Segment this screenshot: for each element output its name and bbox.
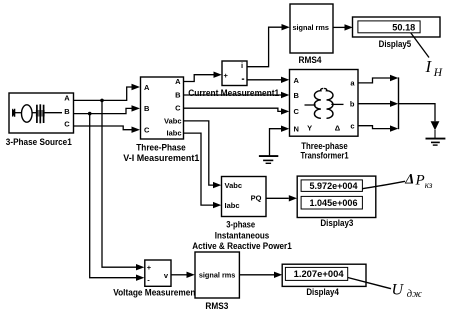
wire V-I Iabc out to Power Iabc [184,133,222,208]
junction dot on A wire [100,99,104,103]
annotation label I_H [425,57,443,79]
label 3-Phase Source1 [6,137,72,147]
annotation label U-dzh [392,281,423,299]
wire source C to V-I C [74,126,141,133]
svg-text:1.207e+004: 1.207e+004 [294,269,344,279]
label 3-phase Instantaneous Active & Reactive Power1 [192,219,292,251]
svg-text:A: A [64,93,70,102]
svg-text:C: C [175,104,181,113]
svg-text:Display4: Display4 [306,287,339,297]
svg-text:Δ: Δ [404,171,414,187]
wire Transformer a to bus [358,75,398,83]
label Display5 [379,39,412,49]
svg-text:3-Phase Source1: 3-Phase Source1 [6,137,72,147]
label Three-phase Transformer1 [301,141,349,161]
svg-text:Vabc: Vabc [164,116,182,125]
svg-text:A: A [294,76,300,85]
svg-text:P: P [415,172,425,188]
svg-text:Instantaneous: Instantaneous [215,230,270,240]
label Three-Phase V-I Measurement1 [123,143,199,164]
block Three-Phase V-I Measurement1 [141,77,184,139]
label RMS4 [299,55,322,65]
block 3-Phase Source1 [9,93,74,133]
svg-text:Current Measurement1: Current Measurement1 [188,88,279,98]
wire V-I Vabc out to Power Vabc [184,121,222,188]
svg-text:RMS3: RMS3 [205,301,228,311]
wire Transformer c to bus [358,125,398,131]
label Display4 [306,287,339,297]
svg-text:Iabc: Iabc [225,201,240,210]
svg-text:H: H [433,67,443,79]
svg-text:Iabc: Iabc [166,129,181,138]
block Three-phase Transformer1 [290,70,359,137]
wire A junction down to Voltage Measurement + [102,100,144,270]
svg-text:Y: Y [307,123,312,132]
svg-text:5.972e+004: 5.972e+004 [310,181,358,191]
wire Current Measurement i out to RMS4 [247,24,290,67]
svg-text:Display5: Display5 [379,39,412,49]
svg-text:B: B [175,90,181,99]
svg-text:i: i [241,61,243,70]
svg-text:V-I Measurement1: V-I Measurement1 [123,153,199,163]
wire Voltage Measurement v out to RMS3 [171,272,195,278]
block RMS4 [290,4,333,53]
svg-text:signal rms: signal rms [292,23,329,32]
svg-text:Δ: Δ [335,123,341,132]
block Display3 [297,176,376,217]
svg-text:+: + [147,263,152,272]
label Display3 [320,218,353,228]
svg-text:Three-Phase: Three-Phase [136,143,186,153]
wire source B to V-I B [74,105,141,113]
label Current Measurement1 [188,88,279,98]
svg-text:B: B [294,91,300,100]
wire ground to Transformer N [270,126,290,156]
short-circuit bus vertical [398,77,400,129]
svg-text:C: C [294,107,300,116]
svg-text:A: A [175,77,181,86]
block Display4 [282,264,366,286]
block Current Measurement1 [222,61,247,86]
svg-text:дж: дж [407,289,422,300]
svg-text:RMS4: RMS4 [299,55,322,65]
ground below N [259,156,278,163]
svg-text:Voltage Measurement: Voltage Measurement [113,288,198,298]
svg-text:B: B [144,104,150,113]
label Voltage Measurement [113,288,198,298]
svg-text:кз: кз [425,180,433,190]
wire Transformer b to bus [358,101,398,107]
wire Current Measurement - out to Transformer A [247,77,289,83]
svg-text:Transformer1: Transformer1 [301,150,349,160]
wire V-I B out to Transformer B [184,92,290,98]
block Voltage Measurement [145,260,171,286]
block Display5 [353,17,441,37]
wire Power PQ out to Display3 [266,195,297,201]
wire RMS4 out to Display5 [333,24,353,30]
annotation line from Display3 to dP [362,181,405,188]
wire RMS3 out to Display4 [239,272,282,278]
svg-text:b: b [350,99,355,108]
svg-text:50.18: 50.18 [392,22,415,32]
annotation line from Display4 to U [348,278,391,289]
svg-text:Display3: Display3 [320,218,353,228]
svg-text:A: A [144,83,150,92]
block RMS3 [195,252,239,298]
annotation label delta-P-kz [404,171,433,189]
svg-text:PQ: PQ [251,193,262,202]
svg-text:N: N [294,125,299,134]
block 3-phase Instantaneous Active & Reactive Power1 [222,177,267,217]
svg-text:1.045e+006: 1.045e+006 [310,198,358,208]
svg-text:B: B [64,107,70,116]
svg-text:Vabc: Vabc [225,181,243,190]
wire bus to right ground [399,104,440,138]
svg-text:c: c [350,121,354,130]
svg-text:C: C [144,125,150,134]
svg-text:signal rms: signal rms [199,271,236,280]
junction dot on B wire [88,112,92,116]
svg-text:C: C [64,119,70,128]
svg-text:U: U [392,281,405,298]
svg-text:+: + [224,71,229,80]
ground right [426,139,446,146]
wire B junction down to Voltage Measurement - [90,114,145,281]
annotation line from Display5 to I_H [411,33,429,58]
wire V-I C out to Transformer C [184,108,290,114]
wire source A to V-I A [74,84,141,101]
svg-text:Three-phase: Three-phase [301,141,348,151]
svg-text:Active & Reactive Power1: Active & Reactive Power1 [192,241,292,251]
svg-text:3-phase: 3-phase [226,219,255,229]
wire V-I A out to Current Measurement + [184,72,222,82]
label RMS3 [205,301,228,311]
